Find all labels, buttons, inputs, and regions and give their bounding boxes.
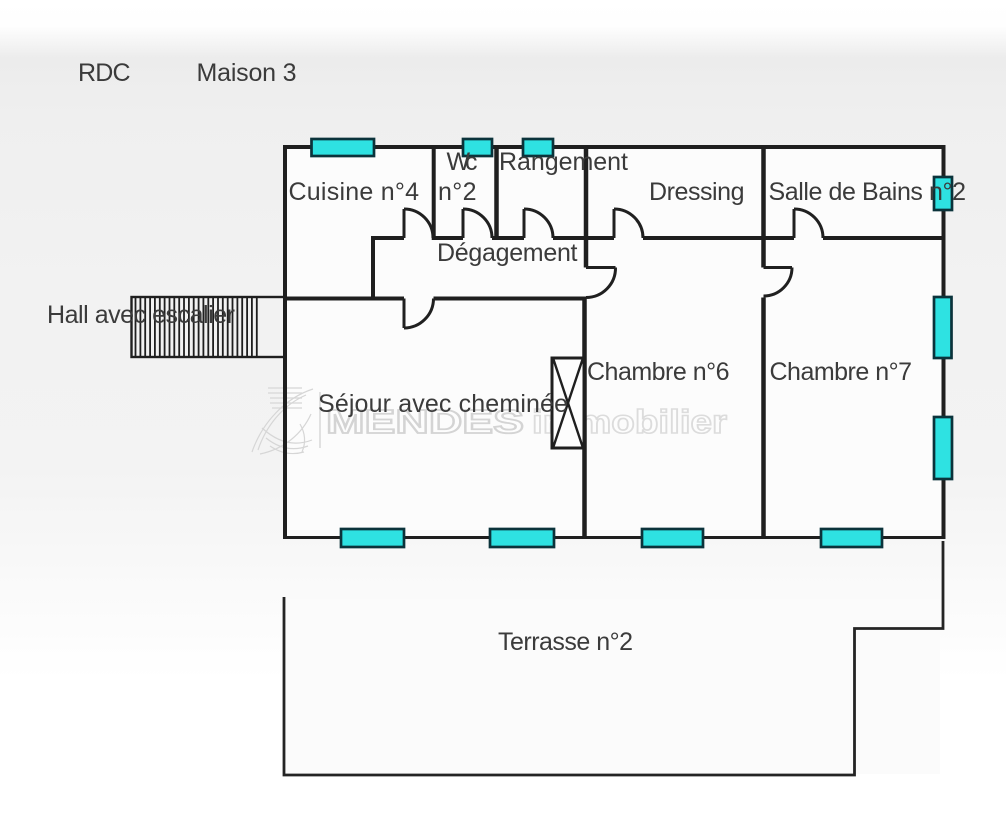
- terrace outline: [284, 541, 943, 775]
- svg-text:Cuisine n°4: Cuisine n°4: [289, 178, 420, 206]
- wall rangement/dressing: [584, 147, 589, 268]
- door dressing arc: [614, 209, 643, 238]
- terrace interior background: [286, 599, 940, 774]
- fireplace diagonal 2: [554, 360, 583, 447]
- wall chambre6/chambre7: [761, 298, 766, 540]
- door salle-de-bains leaf: [793, 209, 796, 238]
- window bottom sejour 2: [490, 529, 554, 547]
- window right salle-de-bains: [934, 177, 952, 210]
- door chambre7 leaf: [764, 266, 793, 269]
- wall sejour/chambre6: [582, 298, 587, 540]
- svg-text:Chambre n°6: Chambre n°6: [587, 358, 730, 386]
- door sejour leaf: [403, 299, 406, 329]
- wall sejour top segment b: [434, 297, 587, 301]
- door salle-de-bains arc: [794, 209, 823, 238]
- door sejour arc: [404, 299, 434, 329]
- window top rangement: [523, 139, 553, 156]
- window top wc: [463, 139, 492, 156]
- stairs hall rectangle: [132, 297, 286, 357]
- wall top exterior: [283, 145, 946, 149]
- svg-text:Rangement: Rangement: [499, 148, 628, 176]
- window right chambre7 upper: [934, 297, 952, 358]
- wall wc/rangement: [494, 147, 499, 240]
- svg-text:Dégagement: Dégagement: [437, 239, 578, 267]
- door rangement arc: [524, 209, 553, 238]
- svg-text:Maison 3: Maison 3: [197, 59, 297, 87]
- window top cuisine: [312, 139, 375, 156]
- window bottom chambre7: [821, 529, 882, 547]
- stairs hatching: [136, 298, 257, 356]
- door rangement leaf: [523, 209, 526, 238]
- svg-text:RDC: RDC: [78, 59, 131, 87]
- window right chambre7 lower: [934, 417, 952, 479]
- door wc leaf: [462, 209, 465, 238]
- wall corridor top segment b: [433, 236, 463, 240]
- svg-text:Chambre n°7: Chambre n°7: [770, 358, 913, 386]
- fireplace box: [552, 358, 584, 448]
- svg-text:Séjour avec cheminée: Séjour avec cheminée: [318, 390, 568, 418]
- wall left exterior: [283, 145, 287, 539]
- wall corridor top segment a: [371, 236, 404, 240]
- door chambre6 leaf: [586, 266, 616, 269]
- wall bottom exterior: [283, 536, 946, 539]
- wall cuisine/wc: [432, 147, 436, 240]
- wall corridor top segment f: [823, 236, 946, 240]
- door chambre6 arc: [586, 268, 616, 298]
- watermark logo swirl: [252, 388, 313, 454]
- fireplace diagonal 1: [554, 360, 583, 447]
- window bottom chambre6: [642, 529, 703, 547]
- svg-text:Dressing: Dressing: [649, 178, 745, 206]
- wall degagement left: [371, 236, 375, 301]
- svg-text:Terrasse n°2: Terrasse n°2: [498, 628, 633, 656]
- door cuisine arc: [404, 209, 433, 238]
- svg-text:Wc: Wc: [447, 148, 478, 176]
- watermark separator bar: [319, 392, 321, 448]
- wall corridor top segment d: [553, 236, 614, 240]
- svg-text:n°2: n°2: [438, 178, 477, 206]
- wall corridor top segment e: [643, 236, 794, 240]
- svg-text:Salle de Bains n°2: Salle de Bains n°2: [769, 178, 967, 206]
- wall dressing/salle-de-bains: [761, 147, 766, 268]
- window bottom sejour: [341, 529, 404, 547]
- door dressing leaf: [613, 209, 616, 238]
- door wc arc: [463, 209, 492, 238]
- svg-text:Hall avec escalier: Hall avec escalier: [47, 301, 235, 329]
- door cuisine leaf: [403, 209, 406, 238]
- door chambre7 arc: [764, 268, 793, 297]
- wall sejour top segment a: [283, 297, 404, 301]
- building interior background: [287, 149, 942, 536]
- wall right exterior: [942, 145, 946, 539]
- wall corridor top segment c: [492, 236, 524, 240]
